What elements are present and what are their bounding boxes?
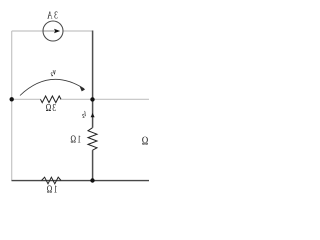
current arrow i2 on right branch xyxy=(91,113,95,117)
wire top (grey) xyxy=(12,30,93,32)
label ohm at edge (cropped) xyxy=(142,135,149,148)
svg-text:3A: 3A xyxy=(46,9,58,20)
voltage arc arrowhead xyxy=(80,86,86,91)
current source U1 arrow xyxy=(44,29,61,33)
wire middle extension to edge (grey) xyxy=(93,98,150,100)
svg-text:Ω: Ω xyxy=(142,135,149,148)
wire middle branch right segment (grey) xyxy=(60,98,93,100)
svg-text:i2: i2 xyxy=(82,111,86,119)
node A dot (left middle) xyxy=(10,97,14,101)
wire left outer (grey) xyxy=(11,31,13,181)
wire middle branch left segment (grey) xyxy=(12,98,41,100)
resistor R1 3ohm zigzag (middle branch) xyxy=(41,96,62,103)
node C dot (junction bottom) xyxy=(90,178,94,182)
svg-text:v2: v2 xyxy=(50,68,55,78)
wire right vertical upper (dark) xyxy=(92,31,94,128)
label 1ohm (right) xyxy=(69,133,81,144)
label 1ohm (bottom) xyxy=(45,184,57,195)
wire right vertical lower (dark) xyxy=(92,150,94,181)
label 3A xyxy=(46,9,58,20)
circuit schematic (mirrored rendering) xyxy=(0,0,149,200)
voltage arc arrow v2 xyxy=(20,79,84,95)
label 3ohm xyxy=(45,102,57,113)
svg-text:1Ω: 1Ω xyxy=(45,184,57,195)
node B dot (junction middle right) xyxy=(90,97,94,101)
svg-text:1Ω: 1Ω xyxy=(69,133,81,144)
resistor R3 1ohm zigzag (bottom) xyxy=(42,177,62,184)
current source U1 circle xyxy=(43,21,63,41)
svg-text:3Ω: 3Ω xyxy=(45,102,57,113)
label i2 xyxy=(82,111,86,119)
wire bottom (dark) xyxy=(12,180,150,182)
label v2 xyxy=(50,68,55,78)
resistor R2 1ohm zigzag (right vertical) xyxy=(88,128,97,151)
